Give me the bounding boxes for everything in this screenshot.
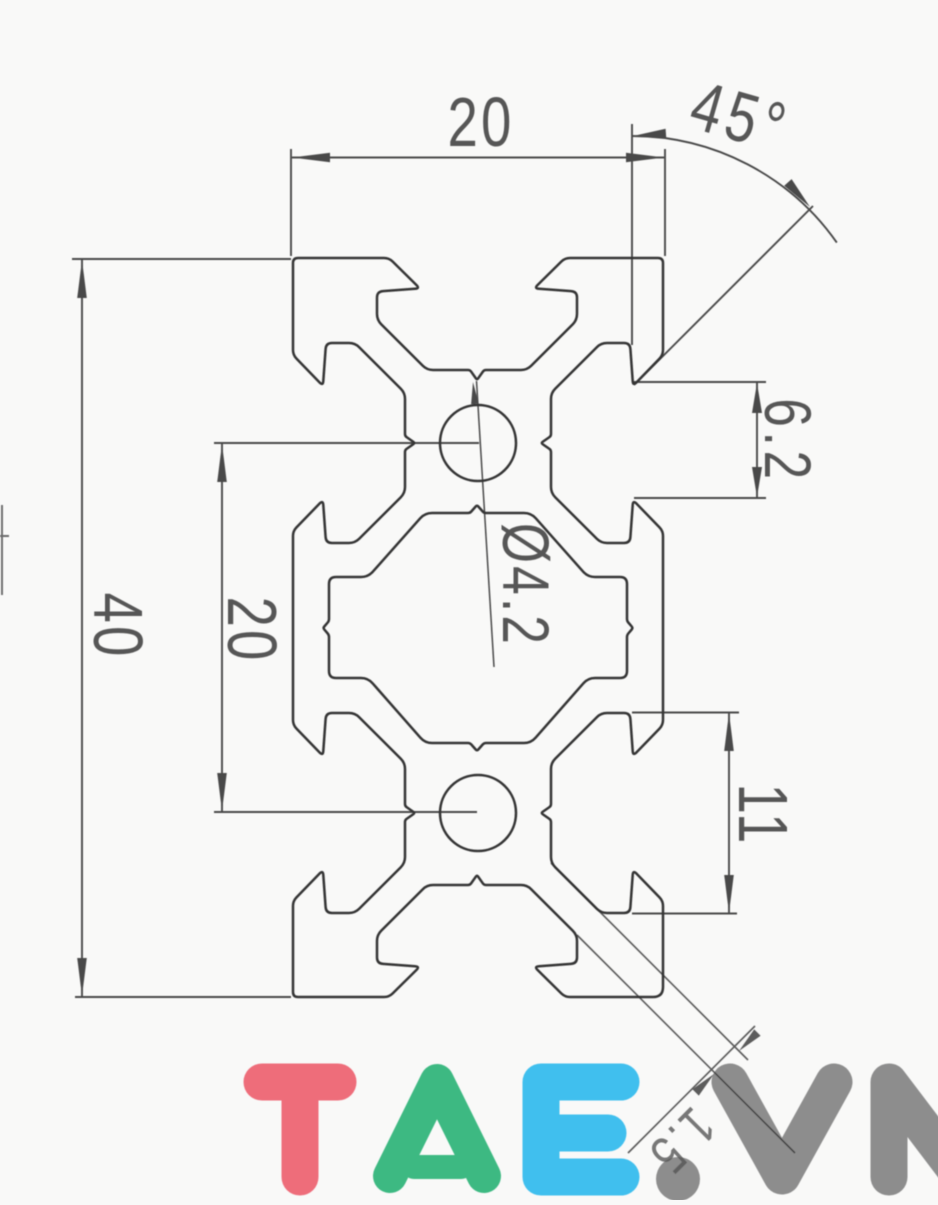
svg-text:Ø4.2: Ø4.2 — [489, 523, 564, 647]
svg-text:6.2: 6.2 — [751, 398, 826, 484]
svg-text:20: 20 — [212, 597, 290, 664]
svg-text:20: 20 — [448, 84, 515, 162]
svg-text:11: 11 — [723, 784, 801, 847]
svg-text:40: 40 — [78, 593, 156, 660]
